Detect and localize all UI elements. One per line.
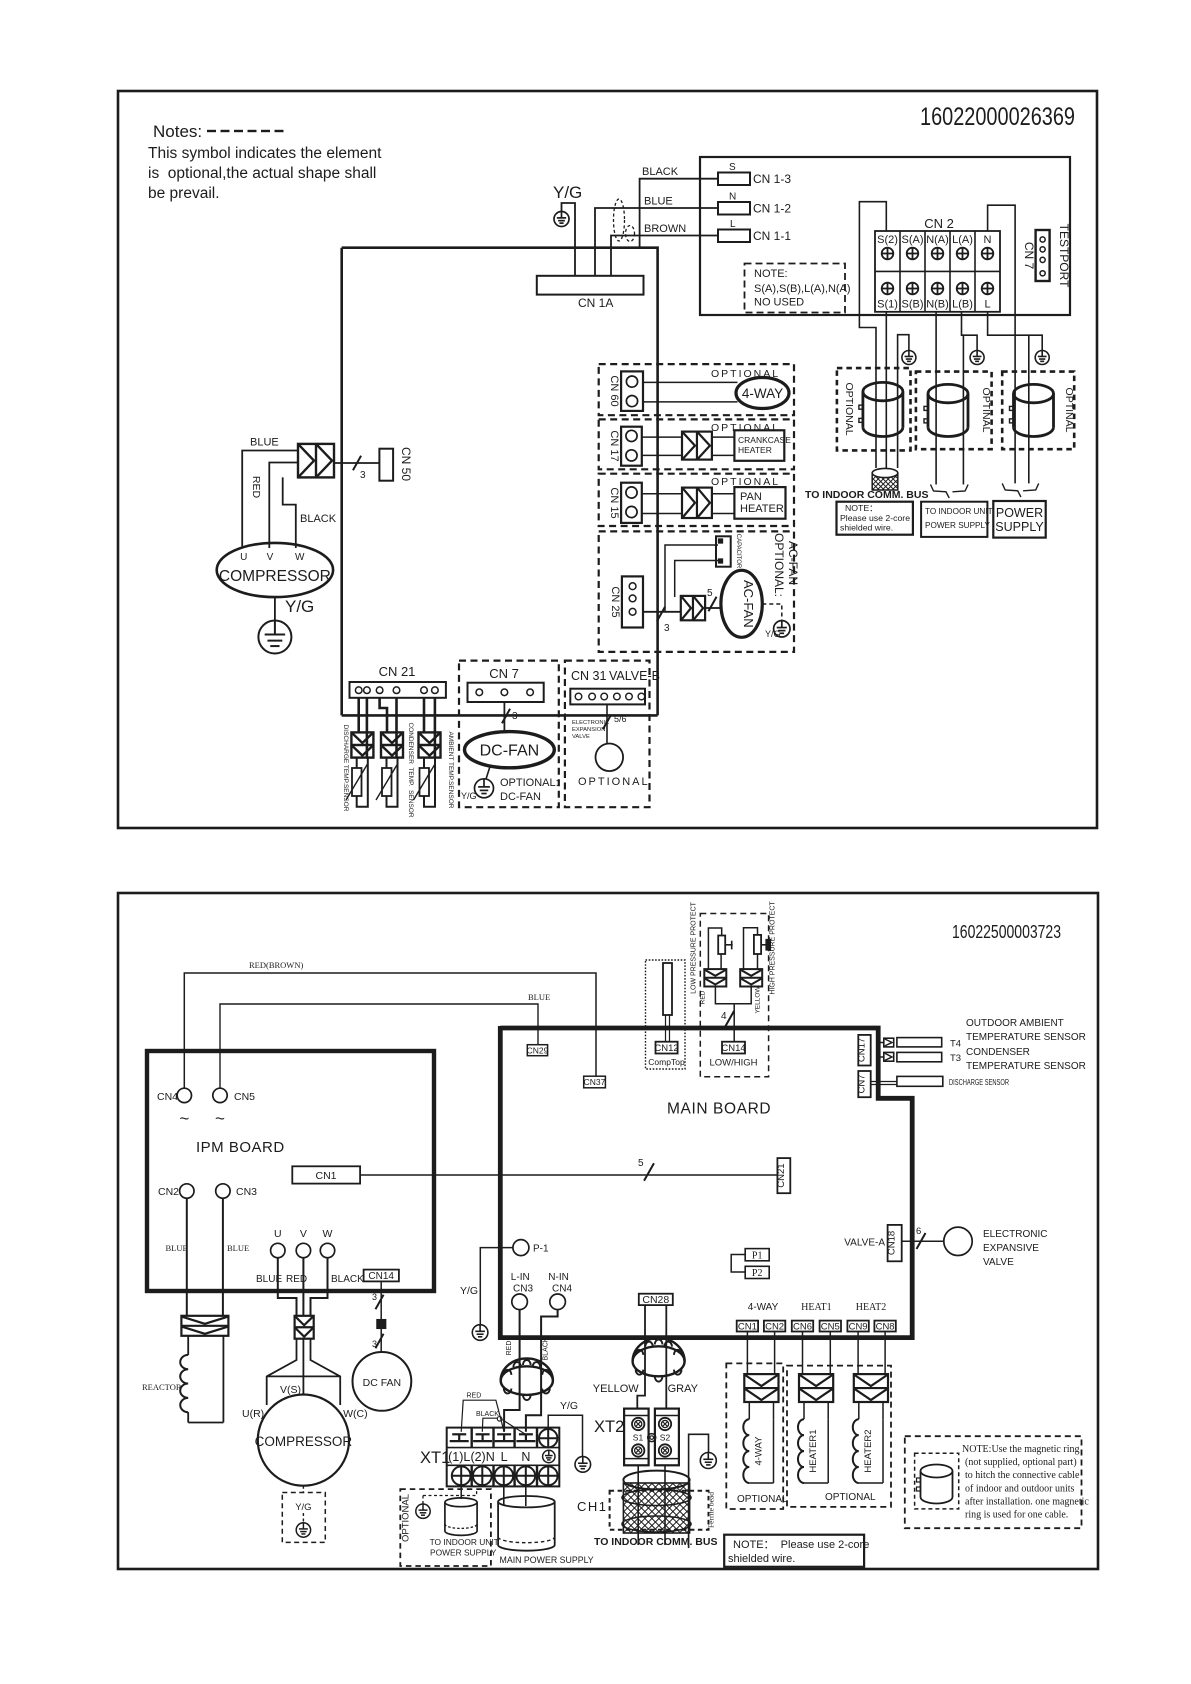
brace to power supply [1002,483,1038,497]
connector CN28 [639,1294,673,1306]
svg-text:CN 1-2: CN 1-2 [753,202,791,216]
connector CN 7 [468,666,544,702]
pan heater connector [682,488,712,518]
svg-text:MAIN POWER SUPPLY: MAIN POWER SUPPLY [500,1555,594,1565]
svg-text:S(B): S(B) [902,299,924,311]
svg-text:Y/G: Y/G [295,1502,311,1513]
svg-text:BLUE: BLUE [166,1243,188,1253]
svg-text:YELLOW: YELLOW [593,1383,639,1395]
svg-text:NOTE： Please use 2-core: NOTE： Please use 2-core [733,1539,869,1551]
svg-text:CompTop: CompTop [648,1057,685,1067]
svg-text:3: 3 [372,1339,377,1349]
svg-text:YELLOW: YELLOW [755,986,762,1014]
svg-text:OPTIONAL: OPTIONAL [825,1492,876,1503]
svg-text:CN5: CN5 [234,1091,255,1103]
wire RED(BROWN) [184,960,596,1088]
svg-text:4-WAY: 4-WAY [742,386,783,401]
svg-text:4-WAY: 4-WAY [748,1302,779,1313]
compressor earth dashed box [282,1486,325,1543]
svg-text:BLACK: BLACK [543,1337,550,1360]
wire with 5/6-slash to expansion valve [603,704,627,743]
svg-text:EXPANSION: EXPANSION [572,727,605,733]
label to indoor unit power supply [430,1537,499,1558]
compressor feed wires [267,1339,341,1405]
label condenser temperature sensor [966,1047,1086,1072]
label RED (pressure) [700,990,707,1004]
svg-text:U(R): U(R) [242,1408,264,1420]
svg-text:shielded wire.: shielded wire. [728,1553,795,1565]
dashed optional box magnetic ring 2 [916,372,992,450]
wires CN28 to toroid 2 [637,1305,666,1409]
magnetic ring 2 [924,384,968,436]
wire XT1 earth to Y/G earth [548,1400,582,1457]
MAIN BOARD label [667,1101,771,1118]
connector P1 [731,1249,769,1272]
svg-text:RED: RED [467,1393,482,1400]
svg-text:LOW PRESSURE PROTECT: LOW PRESSURE PROTECT [691,901,698,994]
svg-text:HEAT2: HEAT2 [856,1302,887,1313]
dashed optional box magnetic ring 3 [1002,372,1075,450]
svg-text:AC-FAN: AC-FAN [741,580,756,628]
connector CN12 [648,1042,685,1067]
wire CN 60 to 4-WAY [643,382,738,402]
dashed optional box 4-way [726,1363,788,1509]
svg-text:VALVE-A: VALVE-A [844,1238,885,1249]
svg-text:U: U [240,552,247,563]
svg-text:P1: P1 [752,1250,763,1261]
svg-text:V(S): V(S) [280,1384,301,1396]
svg-text:AMBIENT TEMP.SENSOR: AMBIENT TEMP.SENSOR [447,732,454,809]
wire S(2) to comm bus [859,202,886,468]
high pressure switch [744,928,771,969]
terminal P-1 [513,1240,549,1256]
svg-text:BLUE: BLUE [528,992,550,1002]
svg-text:CN7: CN7 [857,1074,868,1093]
wire BROWN from CN 1-1 [611,223,718,276]
crankcase heater connector [682,432,712,460]
dashed box LOW/HIGH pressure protect [700,914,768,1077]
svg-text:DISCHARGE SENSOR: DISCHARGE SENSOR [949,1077,1009,1087]
dashed optional box AC-FAN [599,531,800,652]
svg-text:(1)L: (1)L [448,1450,470,1464]
svg-text:OPTIONAL: OPTIONAL [843,382,855,435]
ac-fan connector [681,596,705,620]
svg-text:CN 1A: CN 1A [578,296,613,310]
title text block: Notes [148,122,382,202]
test port connector CN 7 [1022,224,1071,288]
jumper BLACK (2)N to N [476,1411,525,1434]
main bus wire from CN 1A area [342,248,658,716]
svg-text:(2)N: (2)N [470,1450,494,1464]
earth symbol 2 [970,351,984,365]
T4 sensor [878,1038,961,1050]
label TO INDOOR COMM. BUS (bottom) [594,1536,717,1548]
svg-text:S(A): S(A) [902,234,924,246]
svg-text:T4: T4 [950,1039,961,1050]
svg-text:BLUE: BLUE [227,1243,249,1253]
wires XT2 to comm bus [638,1465,665,1545]
svg-text:DC FAN: DC FAN [363,1377,402,1389]
connector CN7 (main board) [857,1071,871,1097]
capacitor [716,534,741,569]
svg-text:CN18: CN18 [887,1231,898,1255]
left bus wire down to CN 21 [340,248,343,716]
dashed optional box CN 60 [599,364,794,415]
wire with 3-slash to DC-FAN [502,702,518,732]
connectors CN1 CN2 CN6 CN5 CN9 CN8 [737,1321,896,1333]
svg-text:5: 5 [707,588,713,599]
earth near XT1 [472,1325,488,1341]
wire BLUE from CN 1-2 [595,196,718,277]
svg-text:L(A): L(A) [952,234,973,246]
svg-text:OUTDOOR AMBIENT: OUTDOOR AMBIENT [966,1018,1064,1029]
dashed box CH1 [577,1491,716,1530]
svg-text:COMPRESSOR: COMPRESSOR [219,568,331,585]
wire CN2 BLUE down [166,1198,188,1316]
terminal U [271,1228,285,1258]
magnetic ring 3 [1010,384,1054,436]
svg-text:S(1): S(1) [877,299,898,311]
reactor connector [181,1316,228,1336]
connector CN 1-1 [718,219,791,243]
svg-text:CN 50: CN 50 [399,447,413,481]
magnetic ring note text [962,1444,1089,1521]
terminal N-IN CN4 [548,1272,572,1310]
connector CN 60 [608,371,643,411]
svg-text:CN6: CN6 [793,1322,812,1333]
discharge temp. sensor [342,698,373,812]
svg-text:NOTE:Use the magnetic ring: NOTE:Use the magnetic ring [962,1444,1079,1455]
wire BLUE U [256,1258,297,1316]
indoor unit supply cylinder [445,1498,477,1535]
dashed optional box CN 17 [599,419,794,469]
label main power supply [500,1555,594,1565]
svg-text:CONDENSER TEMP. SENSOR: CONDENSER TEMP. SENSOR [407,722,414,817]
connector CN 15 [608,483,642,523]
AC-FAN motor [721,570,762,637]
terminal L-IN CN3 [511,1272,534,1310]
wire CN18 to expansion valve with 6-slash [902,1226,944,1249]
svg-text:BLUE: BLUE [644,196,673,208]
electronic expansive valve [944,1227,1048,1268]
compressor motor [217,543,333,597]
connector P2 [745,1266,769,1279]
svg-text:CN21: CN21 [776,1163,787,1187]
svg-text:N: N [521,1450,530,1464]
wire CN 17 to crankcase heater [642,437,735,455]
svg-text:CN28: CN28 [642,1294,669,1306]
svg-text:CH1: CH1 [577,1499,608,1514]
svg-text:HEATER2: HEATER2 [863,1429,874,1472]
svg-text:CN2: CN2 [158,1186,179,1198]
svg-text:N-IN: N-IN [548,1272,569,1283]
connector CN21 (main board) [776,1158,791,1193]
svg-text:XT2: XT2 [594,1418,624,1436]
wire CN1 to CN21 with 5-slash [360,1158,777,1181]
svg-text:CN9: CN9 [849,1322,868,1333]
4-way valve coil (bottom) [743,1332,778,1484]
svg-text:BROWN: BROWN [644,223,686,235]
connector CN 50 [379,447,413,481]
svg-text:TO INDOOR UNIT: TO INDOOR UNIT [925,507,993,516]
svg-text:BLACK: BLACK [300,513,337,525]
svg-text:W: W [323,1228,333,1240]
svg-text:CN12: CN12 [654,1043,678,1054]
terminal CN4 [157,1088,192,1128]
svg-text:MAIN BOARD: MAIN BOARD [667,1101,771,1118]
main power supply cylinder [498,1496,555,1551]
svg-text:BLACK: BLACK [476,1411,499,1418]
dashed optional box magnetic ring 1 [837,368,911,450]
svg-text:SUPPLY: SUPPLY [995,520,1044,534]
compressor connector (bottom) [295,1316,314,1339]
dashed optional box DC-FAN [459,661,559,808]
svg-text:S(2): S(2) [877,234,898,246]
svg-text:L: L [501,1450,508,1464]
wire CN4 BLACK down [526,1310,558,1432]
labels 4-WAY HEAT1 HEAT2 [748,1302,887,1313]
svg-text:W: W [295,552,305,563]
shield cylinder CH1 [497,1471,792,1533]
svg-text:CN3: CN3 [236,1186,257,1198]
label outdoor ambient temperature sensor [966,1018,1086,1043]
svg-text:5: 5 [638,1158,644,1169]
small dashed box with ring [915,1453,959,1509]
dashed optional box heaters [787,1366,891,1507]
compressor motor (bottom) [242,1384,368,1486]
crankcase heater [734,430,791,461]
wire screw1 to indoor cylinder [460,1485,462,1499]
svg-text:3: 3 [512,711,518,722]
svg-text:ELECTRONIC: ELECTRONIC [572,720,609,726]
svg-text:GRAY: GRAY [668,1383,699,1395]
svg-text:CN 17: CN 17 [608,430,620,461]
IPM board label [196,1139,285,1156]
svg-text:CN37: CN37 [584,1077,606,1087]
svg-text:ring is used for one cable.: ring is used for one cable. [965,1510,1068,1521]
high pressure connector [740,969,762,986]
svg-text:Y/G: Y/G [460,1285,478,1297]
comp top sensor [663,963,672,1042]
condenser temp. sensor [376,698,414,818]
wire with 5-slash to AC-FAN [705,588,721,611]
svg-text:U: U [274,1228,282,1240]
wire S(1) to comm bus [885,312,887,468]
drawing number 16022500003723 [952,921,1061,942]
svg-text:OPTIONAL: OPTIONAL [711,422,780,434]
svg-text:DC-FAN: DC-FAN [500,791,541,803]
svg-text:16022000026369: 16022000026369 [920,103,1075,131]
svg-text:Ferrite bead: Ferrite bead [707,1492,716,1528]
svg-text:5/6: 5/6 [614,714,627,724]
DC-FAN motor [465,732,555,768]
svg-text:LOW/HIGH: LOW/HIGH [709,1058,757,1069]
wire earth 2 stub [963,335,977,350]
dotted box CompTop [646,960,686,1069]
svg-text:CN 1-3: CN 1-3 [753,172,791,186]
svg-text:CN8: CN8 [876,1322,895,1333]
earth in optional box [416,1489,477,1518]
low pressure connector [704,969,726,986]
connector CN17 (main board) [857,1035,871,1066]
note dashed box: S(A),S(B),L(A),N(A) NO USED [745,264,851,313]
note box: use 2-core shielded wire [837,502,913,535]
pressure wires join with 4-slash [715,987,751,1042]
svg-text:P-1: P-1 [533,1244,549,1255]
svg-text:CN4: CN4 [157,1091,178,1103]
svg-text:L: L [730,219,736,230]
svg-text:NO USED: NO USED [754,297,804,309]
svg-text:N(B): N(B) [926,299,949,311]
wire CN14 to DC FAN [372,1281,386,1352]
label LOW PRESSURE PROTECT [691,901,698,994]
optional label [578,776,650,788]
svg-text:CN1: CN1 [738,1322,757,1333]
wire BLACK from CN 1-3 [640,166,718,248]
svg-text:is optional,the actual shape: is optional,the actual shape shall [148,165,376,182]
wire BLACK W [311,1258,365,1316]
wire BLACK to compressor W [283,477,337,548]
svg-text:This symbol indicates the elem: This symbol indicates the element [148,145,382,162]
svg-text:VALVE: VALVE [572,734,590,740]
svg-text:RED: RED [250,476,262,499]
low pressure switch [708,928,732,969]
jumper RED (1)L to L [461,1393,504,1432]
note box please use 2-core [724,1535,869,1567]
svg-text:AC-FAN: AC-FAN [786,541,800,585]
svg-text:CAPACITOR: CAPACITOR [735,534,741,569]
svg-text:POWER: POWER [996,506,1043,520]
DC FAN motor [353,1352,412,1411]
wires to main power supply [504,1485,526,1506]
terminal CN2 [158,1184,194,1198]
reactor [142,1336,223,1423]
svg-text:DISCHARGE TEMP.SENSOR: DISCHARGE TEMP.SENSOR [342,725,349,812]
DC-FAN earth Y/G [461,767,559,804]
dashed optional box CN 15 [599,474,794,526]
svg-text:CN 7: CN 7 [489,666,519,681]
label HIGH PRESSURE PROTECT [770,901,777,995]
svg-text:(not supplied, optional part): (not supplied, optional part) [965,1457,1077,1468]
wire XT2 shield to earth [689,1434,709,1548]
svg-text:Y/G: Y/G [285,597,314,616]
dashed optional box VALVE-B [565,661,650,808]
svg-text:TEMPERATURE SENSOR: TEMPERATURE SENSOR [966,1032,1086,1043]
pan heater [734,487,785,519]
connector CN 1-2 [718,192,791,216]
label YELLOW (pressure) [755,986,762,1014]
drawing number 16022000026369 [920,103,1075,131]
wire comm bus shield to earth 1 [898,335,909,468]
svg-text:of indoor and outdoor units: of indoor and outdoor units [965,1483,1075,1494]
svg-text:N: N [729,192,736,203]
dashed note box magnetic ring [905,1436,1082,1528]
discharge sensor [871,1076,1009,1087]
svg-text:OPTIONAL:: OPTIONAL: [500,777,559,789]
ambient temp. sensor [414,698,455,809]
terminal V [296,1228,310,1258]
svg-text:XT1: XT1 [420,1449,450,1467]
svg-text:OPTIONAL: OPTIONAL [737,1494,788,1505]
svg-text:L: L [984,299,990,311]
wire P-1 to earth Y/G [460,1248,513,1325]
compressor connector [298,444,334,478]
wire L(B) to indoor unit power supply [962,312,964,485]
svg-text:HEATER: HEATER [740,503,784,515]
svg-text:N(A): N(A) [926,234,949,246]
label GRAY [668,1383,699,1395]
svg-text:HEATER: HEATER [738,445,772,455]
svg-text:OPTIONAL: OPTIONAL [401,1494,412,1542]
svg-text:Y/G: Y/G [553,183,582,202]
terminal block XT2 [594,1409,679,1466]
svg-text:3: 3 [360,470,366,481]
heater2 coil [853,1332,888,1484]
svg-text:be prevail.: be prevail. [148,185,220,202]
wire BLUE to compressor U [242,437,298,549]
svg-text:TO INDOOR COMM. BUS: TO INDOOR COMM. BUS [594,1536,717,1548]
svg-text:RED: RED [506,1341,513,1356]
svg-text:REACTOR: REACTOR [142,1382,182,1392]
svg-text:CN 25: CN 25 [609,586,621,617]
svg-text:TO INDOOR UNIT: TO INDOOR UNIT [430,1537,499,1547]
AC-FAN earth Y/G [762,604,790,639]
svg-text:BLUE: BLUE [250,437,279,449]
power supply box [993,501,1045,538]
svg-text:4-WAY: 4-WAY [753,1436,764,1466]
toroid ring 2 [633,1338,685,1382]
svg-text:CN3: CN3 [513,1284,533,1295]
svg-text:CN 60: CN 60 [608,375,620,406]
svg-text:CN29: CN29 [527,1046,549,1056]
svg-text:Y/G: Y/G [461,791,477,801]
svg-text:BLACK: BLACK [331,1274,364,1285]
svg-text:P2: P2 [752,1268,763,1279]
svg-text:CN4: CN4 [552,1284,572,1295]
svg-text:W(C): W(C) [343,1408,368,1420]
svg-text:POWER SUPPLY: POWER SUPPLY [430,1548,497,1558]
earth right of XT2 [700,1453,716,1469]
svg-text:VALVE: VALVE [983,1257,1014,1268]
wire earth 3 stub [1029,335,1042,350]
svg-text:CN 7: CN 7 [1022,242,1036,270]
svg-text:Y/G: Y/G [560,1400,578,1412]
svg-text:RED(BROWN): RED(BROWN) [249,960,303,970]
brace to indoor unit power supply [931,485,969,499]
svg-text:T3: T3 [950,1053,961,1064]
svg-text:CN14: CN14 [368,1271,394,1282]
frame of bottom wiring diagram [118,893,1098,1569]
wire L to power supply [988,312,1029,484]
wire CN3 BLUE down [223,1198,249,1316]
IPM board outline [147,1051,434,1291]
svg-text:L-IN: L-IN [511,1272,530,1283]
earth symbol 1 [902,351,916,365]
svg-text:PAN: PAN [740,491,762,503]
svg-text:16022500003723: 16022500003723 [952,921,1061,942]
svg-text:HEATER1: HEATER1 [808,1429,819,1472]
wire BLUE to CN29 [220,992,550,1088]
svg-text:CN 2: CN 2 [924,216,954,231]
connector CN18 [887,1225,902,1261]
svg-text:CN5: CN5 [821,1322,840,1333]
svg-text:after installation. one magnet: after installation. one magnetic [965,1496,1089,1507]
svg-text:~: ~ [215,1109,225,1128]
wire CN3 RED down [504,1310,519,1432]
svg-text:CN1: CN1 [315,1170,336,1182]
svg-text:shielded wire.: shielded wire. [840,523,893,533]
svg-text:CN 21: CN 21 [379,664,416,679]
